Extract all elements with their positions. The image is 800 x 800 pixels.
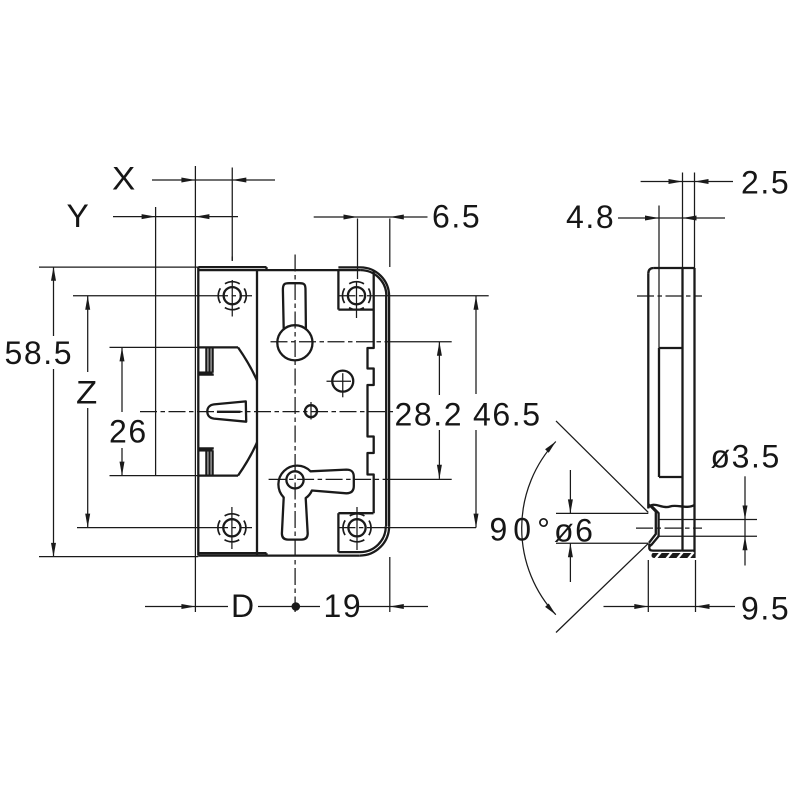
svg-text:6.5: 6.5 (432, 199, 481, 235)
svg-text:Y: Y (67, 198, 91, 234)
dimension ø3.5 label (711, 439, 781, 475)
backplate middle cutout bottom edge (198, 474, 238, 476)
latch bolt wedge (207, 401, 246, 421)
dimension 6.5 line (314, 215, 428, 220)
center pivot small circle (305, 402, 317, 420)
extension line 9.5-left (647, 560, 649, 612)
dimension ø3.5 line (743, 476, 748, 565)
side view hole walls (659, 520, 696, 537)
locking wing lever (278, 466, 353, 540)
dimension Y label (67, 198, 91, 234)
dimension ø6 label (554, 513, 595, 549)
screw hole bottom-left (218, 507, 246, 549)
dimension 26 label (109, 414, 148, 450)
svg-text:4.8: 4.8 (566, 199, 615, 235)
dimension X label (112, 161, 137, 197)
svg-text:Z: Z (76, 375, 99, 411)
extension line X-left / D-left (194, 166, 196, 612)
cover top-right corner arc inner (361, 270, 387, 296)
screw hole bottom-right (343, 507, 371, 550)
dimension 4.8 line (618, 216, 725, 221)
key pin hole cross circle (327, 371, 354, 398)
bottom-right screw row line (46.5 bottom extension) (338, 527, 380, 529)
side view body left edge upper (648, 268, 694, 509)
dimension D label (231, 588, 256, 624)
cover top-right corner arc outer (338, 266, 360, 268)
svg-text:19: 19 (324, 588, 363, 624)
side view bottom flange sectioned band (651, 553, 695, 558)
dimension 9.5 label (741, 591, 790, 627)
svg-text:90°: 90° (490, 512, 556, 548)
cover right edge inner (385, 296, 387, 526)
extension line ø3.5-top (696, 519, 758, 521)
top-right screw row line (46.5 top extension) (338, 295, 380, 297)
cover serrated inner edge (368, 270, 374, 513)
extension line Z-top / top screw row centerline (73, 295, 211, 297)
dimension 58.5 label (5, 335, 74, 371)
cover top-left screw notch (338, 270, 373, 310)
dimension 90° arc (522, 442, 556, 615)
svg-text:2.5: 2.5 (741, 165, 790, 201)
latch bolt wedge slot (217, 411, 241, 413)
backplate top tab (198, 347, 213, 374)
svg-text:X: X (112, 161, 137, 197)
side view body right edge (693, 268, 695, 554)
screw hole top-left (218, 257, 246, 317)
side view bottom flange inner line (649, 548, 694, 551)
dimension Z line (85, 296, 90, 528)
extension line 9.5-right (695, 560, 697, 612)
cover bottom-left screw notch (338, 513, 373, 552)
dimension 90° label (490, 512, 556, 548)
extension line 4.8-left (slot edge) (658, 206, 660, 349)
cover bottom-right corner arc inner (338, 526, 385, 552)
svg-text:28.2: 28.2 (395, 397, 464, 433)
cover left edge (256, 270, 258, 555)
extension line 26-bottom (110, 475, 199, 477)
dimension 19 label (324, 588, 363, 624)
dimension 46.5 line (474, 296, 479, 528)
plan vertical centerline (294, 255, 296, 613)
extension line X-right (top screw axis) (231, 168, 233, 261)
screw hole top-right (343, 281, 371, 318)
keyhole center row line (28.2 top extension) (271, 341, 393, 343)
cover bottom edge (198, 554, 359, 556)
svg-text:ø3.5: ø3.5 (711, 439, 781, 475)
side view countersink profile (649, 505, 659, 549)
cover right edge outer (388, 296, 390, 526)
cover top edge (199, 269, 360, 271)
svg-text:26: 26 (109, 414, 148, 450)
backplate middle cutout bottom curve (238, 443, 257, 476)
extension line 2.5-left (682, 173, 684, 269)
dimension 2.5 label (741, 165, 790, 201)
side view break squiggle (648, 505, 694, 508)
extension line 6.5/19-right (389, 219, 391, 613)
keyhole neck (283, 283, 306, 329)
side view slot (659, 348, 683, 477)
side view body inner line (681, 268, 683, 551)
extension line ø6-bottom (556, 542, 648, 544)
countersink angle construction line upper (556, 421, 648, 513)
dimension Y line (113, 214, 238, 219)
dimension 28.2 line (437, 342, 442, 479)
backplate middle cutout top curve (238, 347, 257, 380)
backplate bottom tab (198, 448, 213, 475)
dimension 9.5 line (604, 604, 736, 609)
svg-text:58.5: 58.5 (5, 335, 74, 371)
lock backplate left edge (197, 267, 199, 555)
extension line Y-left (155, 207, 157, 476)
dimension Z label (76, 375, 99, 411)
backplate middle cutout top edge (198, 346, 238, 348)
plan horizontal centerline (140, 411, 396, 413)
dimension ø6 arrows (568, 470, 573, 582)
keyhole circle (277, 325, 312, 360)
extension line 2.5-right (694, 173, 696, 269)
countersink angle construction line lower (556, 543, 648, 632)
locking wing hub hole (286, 471, 303, 488)
dimension 6.5 label (432, 199, 481, 235)
extension line 58.5-bottom (39, 556, 198, 558)
extension line ø3.5-bottom (696, 535, 758, 537)
dimension 2.5 line (641, 179, 733, 184)
extension line 26-top (110, 346, 199, 348)
dimension 46.5 label (473, 397, 542, 433)
lock backplate bottom inner edge (199, 553, 267, 555)
wing center row line (28.2 bottom extension) (269, 478, 392, 480)
extension line ø6-top (556, 512, 648, 514)
extension line 58.5-top (39, 266, 198, 268)
extension line Z-bottom / bottom screw row centerline (77, 527, 211, 529)
side view flange hatch slivers (655, 552, 693, 559)
dimension 26 line (120, 347, 125, 475)
side view top centerline (637, 295, 702, 297)
dimension D/19 line (145, 602, 428, 611)
dimension X line (152, 178, 275, 183)
cover bottom-right corner arc outer (360, 526, 389, 555)
extension line 6.5-left (top-right screw axis) (357, 219, 359, 280)
dimension 58.5 line (51, 267, 56, 557)
svg-text:9.5: 9.5 (741, 591, 790, 627)
lock backplate top edge (198, 267, 266, 270)
svg-text:46.5: 46.5 (473, 397, 542, 433)
dimension 28.2 label (395, 397, 464, 433)
svg-text:D: D (231, 588, 256, 624)
dimension 4.8 label (566, 199, 615, 235)
side view hole centerline (636, 527, 702, 529)
